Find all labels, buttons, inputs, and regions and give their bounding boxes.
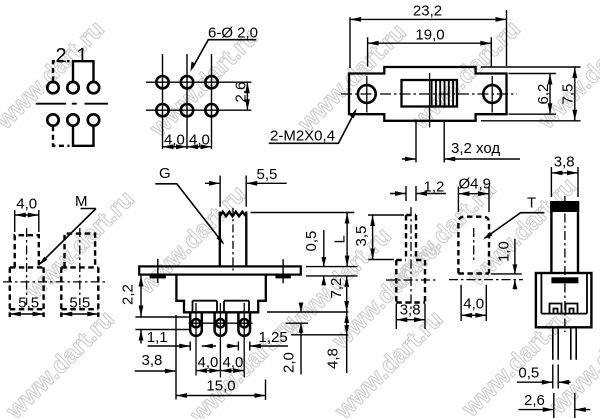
svg-text:M: M [75,193,88,210]
hole B2 [181,104,193,116]
svg-text:6,2: 6,2 [535,84,552,105]
dim 3,5 line [372,215,374,260]
svg-text:2,0: 2,0 [281,352,298,373]
dim 5,5 knob2 arrows [61,312,98,317]
knob top ext line [251,212,355,214]
dim 1,2 arrows [390,193,446,195]
svg-text:7,5: 7,5 [560,84,577,105]
dim 1,2 ext ticks [406,186,416,201]
hole A3 [205,76,217,88]
slider slot [402,80,458,107]
svg-text:23,2: 23,2 [413,3,442,20]
pin 2 [215,312,227,336]
mounting flange [139,266,301,274]
dim 15,0 arrows [176,393,266,398]
svg-text:5,5: 5,5 [69,294,90,311]
pin 1 [190,312,202,336]
T knob outline dashed [458,217,489,274]
dim 5,5 knob1 arrows [10,312,44,317]
side knob outline [551,202,578,274]
svg-text:2,6: 2,6 [524,392,545,409]
dim 0,5 arrows [323,230,325,285]
hole row centerline 2 [146,109,251,111]
dim 4,0 arrows [461,313,486,318]
dim 3,8 arrows [396,317,425,322]
svg-text:4,0: 4,0 [189,131,210,148]
flange bottom ext line [306,275,358,277]
pin holes horizontal centerline [189,322,253,324]
knob sides [220,212,247,267]
leader 2-M2X0,4 [269,111,356,144]
leader M [40,209,96,264]
top view body outline [349,67,507,121]
dim 4,0 ext lines [15,210,39,232]
dim 7,5 line [574,67,576,121]
dim 23,2 arrows [350,17,507,22]
contact circle top-mid [67,82,78,93]
TOPVIEW [269,3,581,163]
side view centerline [564,196,566,332]
dim dia4,9 arrows [458,191,489,196]
svg-text:7,2: 7,2 [328,278,345,299]
dim 3,2 travel ext lines [416,122,444,163]
switch body outline [176,275,265,313]
dim 3,8 arrow [135,370,175,372]
svg-text:G: G [159,165,171,182]
hole column centerline 2 [186,54,188,149]
hole row centerline 1 [146,81,251,83]
svg-text:T: T [527,195,536,212]
dim 3,8 line [396,319,425,321]
side slider contact bar (black) [551,277,578,283]
tab right centerline [282,259,284,283]
TVIEW [449,175,544,321]
knob centerline [232,208,234,271]
flange top ext line [306,266,358,268]
dim dia4,9 line [458,193,489,195]
dim 2,6 line [246,82,248,110]
side terminal left [550,304,562,314]
leader T arrowhead [483,232,492,240]
svg-text:4,0: 4,0 [223,354,244,371]
dim dia4,9 ext ticks [458,187,489,213]
svg-text:0,5: 0,5 [518,365,539,382]
dim 19,0 ext lines [368,37,492,66]
svg-text:Ø4,9: Ø4,9 [459,175,492,192]
dim 4,0 4,0 line [163,146,212,148]
contact circle top-right [88,82,99,93]
dim 3,2 travel arrows [402,158,520,160]
svg-text:4,0: 4,0 [16,196,37,213]
tab left centerline [157,259,159,283]
dim 2,6 arrows [245,82,250,110]
dim 19,0 line [368,42,492,44]
side knob black tip [550,201,579,212]
hole column centerline 3 [211,54,213,149]
pin 1 hole [192,319,200,327]
T knob bottom ext line [491,273,522,275]
dim 4,0 arrows [15,213,39,218]
M view horizontal centerline [3,281,106,283]
dim 1,25 arrows row [148,345,289,347]
SCHEMATIC [36,45,108,146]
svg-text:15,0: 15,0 [206,378,235,395]
ext pin bottom right [291,334,348,336]
svg-text:4,8: 4,8 [325,348,342,369]
dim 1,25 edge ticks [190,342,250,351]
dim 4,0 arrows [163,144,212,149]
svg-text:1,2: 1,2 [424,178,445,195]
ext hole center right [286,322,309,324]
svg-text:4,0: 4,0 [463,295,484,312]
dim 6,2 line [549,74,551,115]
dim 0,5 ext ticks [553,365,558,389]
svg-text:1: 1 [76,45,87,67]
T view horizontal centerline [449,279,523,281]
leader G arrowhead [216,236,224,245]
L knob outline dashed [396,215,425,303]
pin 2 centerline [219,303,221,378]
svg-text:3,5: 3,5 [353,226,370,247]
svg-text:2: 2 [55,45,66,67]
svg-text:1,1: 1,1 [147,329,168,346]
contact circle bottom-left [47,114,58,125]
T knob vertical centerline [473,228,475,262]
dim 4,8 line [346,312,348,373]
dim 4,0 line [15,214,39,216]
dim 4,0 line [461,314,486,316]
dim 23,2 ext lines [350,10,507,68]
dim 15,0 line [176,395,266,397]
hole A2 [181,76,193,88]
flange tab right (black) [275,275,290,279]
dim L arrows [345,213,350,267]
dim 3,8 line [551,172,578,174]
M knob1 outline dashed [10,235,44,317]
svg-text:0,5: 0,5 [303,231,320,252]
svg-text:2-M2X0,4: 2-M2X0,4 [270,128,335,145]
hole B1 [156,104,168,116]
dim 3,8 arrows [551,171,578,176]
dim 7,5 ext lines [481,67,581,121]
dim 5,5 ext lines [220,176,246,207]
wire dashed top from left contact [53,61,70,81]
leader M arrowhead [39,257,48,266]
SIDEVIEW [517,154,592,418]
svg-text:3,8: 3,8 [400,302,421,319]
dim 2,6 ext lines [554,393,575,418]
dim 0,5 arrows [517,381,571,383]
wire dashed bottom from left contact [53,126,70,146]
L view horizontal centerline [386,279,436,281]
M knob2 centerline [79,228,81,305]
svg-text:2,2: 2,2 [120,284,137,305]
svg-text:5,5: 5,5 [257,166,278,183]
dim 1,1 lower arrow [139,330,144,341]
dim 15,0 right ext [265,380,267,401]
svg-text:3,2 ход: 3,2 ход [451,140,500,157]
svg-text:2,6: 2,6 [233,82,250,103]
mounting hole left [358,85,376,103]
knob hatch [432,81,454,107]
contact circle bottom-right [88,114,99,125]
slot vertical centerline [429,73,431,127]
contact circle top-left [47,82,58,93]
body left ext line [175,315,177,400]
dim 7,2 arrows [344,276,349,312]
svg-text:4,0: 4,0 [198,354,219,371]
LVIEW [353,178,446,329]
ext body bottom right [267,311,348,313]
dim 2,6 arrows [518,409,590,411]
svg-text:3,8: 3,8 [554,154,575,171]
dim 4,0 ext lines [461,285,486,321]
dim 3,5 ext lines [368,215,404,260]
dim 6,2 arrows [548,74,553,115]
hole column centerline 1 [162,54,164,149]
dim 5,5 knob1 line [10,313,44,315]
svg-text:19,0: 19,0 [415,26,444,43]
dim 1,1 ext lines [135,317,189,330]
L knob vertical centerline [410,207,412,312]
dim 3,5 arrows [370,215,375,260]
leader G [155,184,223,243]
svg-text:3,8: 3,8 [142,352,163,369]
side body outline [536,273,592,327]
hole right crosshair [491,76,493,113]
pin 3 centerline [243,303,245,378]
hole left crosshair [366,76,368,113]
dim 4,0 pins arrows [196,368,244,373]
dim 6,2 ext lines [509,74,557,115]
knob serrated top [220,212,247,217]
svg-text:5,5: 5,5 [18,294,39,311]
M knob1 centerline [26,228,28,305]
dim 7,2 line [346,276,348,312]
dim 3,8 ext lines [551,167,578,197]
wire solid top bracket [73,61,94,81]
leader arrowhead [190,61,195,71]
side pin 1 [553,327,558,359]
dim 19,0 arrows [368,41,492,46]
svg-text:L: L [332,235,349,243]
flange tab left (black) [150,275,166,279]
M knob2 outline dashed [61,234,98,317]
dim 7,5 arrows [572,67,577,121]
dim 4,0 pins line [196,370,244,372]
HOLEPATTERN [146,25,258,150]
pin 2 hole [216,319,224,327]
svg-text:4,0: 4,0 [164,131,185,148]
hole B3 [205,104,217,116]
leader 2-M2X0,4 arrowhead [350,108,357,118]
MVIEW [3,193,106,317]
leader T [485,213,545,238]
top view horizontal centerline [341,93,517,95]
dim 1,0 arrows [514,239,516,290]
dim 23,2 line [350,18,507,20]
pin 3 hole [240,319,248,327]
dim L line [346,213,348,267]
side terminal right [566,304,578,314]
dim 5,5 arrows [205,182,287,184]
side body inner walls [541,273,587,314]
contact circle bottom-mid [67,114,78,125]
dim 2,2 arrows [139,276,144,317]
mounting hole right [483,85,501,103]
svg-text:1,25: 1,25 [259,329,288,346]
dim 5,5 knob2 line [61,313,98,315]
pin 1 centerline [195,303,197,376]
leader 6-dia2,0 underline [192,40,256,69]
pin 3 [238,312,250,336]
dim 2,0 arrows [300,306,302,375]
wire solid bottom bracket [73,126,94,146]
terminal base strip [193,301,250,313]
hole A1 [156,76,168,88]
FRONTVIEW [120,165,358,400]
svg-text:1,0: 1,0 [496,241,513,262]
dim 2,2 line [140,276,142,317]
side pin 2 [571,327,576,359]
centerline divider [36,103,108,105]
dim 3,8 ext lines [396,304,425,330]
